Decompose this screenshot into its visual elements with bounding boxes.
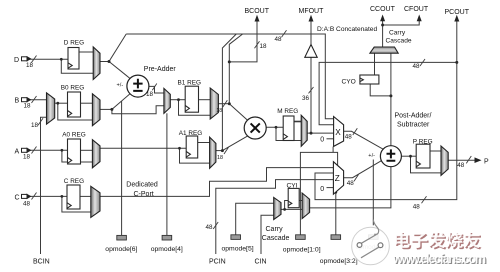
label post-adder plusminus — [368, 153, 375, 159]
bus tick Z out 48 — [354, 175, 359, 182]
svg-text:opmode[3:2]: opmode[3:2] — [320, 258, 358, 265]
label PCOUT — [445, 9, 470, 16]
svg-text:48: 48 — [23, 201, 31, 208]
label X out 48 — [345, 133, 353, 140]
register C REG — [67, 185, 80, 209]
mux D REG bypass — [93, 47, 100, 80]
arrowhead CCOUT — [380, 15, 385, 22]
svg-text:MFOUT: MFOUT — [299, 8, 325, 15]
node pre-adder mux output junction — [177, 98, 180, 101]
pre-adder circle — [127, 75, 149, 97]
bus tick concat 48 — [282, 30, 287, 37]
wire B0 REG bypass — [58, 103, 93, 120]
label A1 out 18 — [217, 155, 223, 161]
wire B1 REG out to mux — [199, 99, 211, 101]
label D REG — [64, 40, 84, 47]
svg-text:Subtracter: Subtracter — [397, 121, 430, 128]
pad opmode32 — [331, 235, 341, 240]
mux carry CYI bypass — [302, 193, 310, 219]
svg-text:48: 48 — [457, 162, 465, 169]
label BCOUT 18 — [260, 43, 268, 50]
label C REG — [64, 178, 84, 185]
svg-text:P: P — [484, 158, 489, 165]
mux X — [334, 117, 344, 147]
wire C input to C REG — [30, 195, 67, 197]
wire A1 to multiplier diagonal — [222, 136, 247, 151]
label D:A:B Concatenated — [317, 26, 377, 33]
svg-text:CYO: CYO — [342, 79, 356, 86]
bus tick BCIN 18 — [38, 118, 43, 125]
node B0 output junction — [110, 108, 113, 111]
label M REG — [277, 108, 298, 115]
register CYO — [360, 75, 379, 84]
label bus 48 top — [275, 36, 283, 43]
label A0 REG — [62, 132, 85, 139]
svg-text:48: 48 — [347, 180, 355, 187]
svg-text:18: 18 — [216, 108, 222, 114]
register A1 REG — [186, 136, 198, 158]
svg-text:48: 48 — [413, 63, 421, 70]
svg-text:BCOUT: BCOUT — [245, 8, 270, 15]
bus tick B1 18 — [223, 100, 228, 107]
mux B0 REG bypass — [92, 94, 100, 126]
bus tick BCOUT 18 — [255, 41, 260, 48]
label opmode6 — [105, 246, 137, 253]
wire P out — [448, 159, 475, 161]
arrowhead MFOUT — [309, 15, 314, 22]
bus tick A 18 — [32, 147, 37, 154]
wire P REG out to mux — [430, 150, 441, 152]
wire CYI out — [299, 200, 302, 202]
bus tick MFOUT 36 — [309, 87, 314, 93]
wire A0 REG bypass — [62, 150, 93, 162]
svg-text:P REG: P REG — [413, 138, 433, 145]
mux C REG bypass — [91, 186, 100, 217]
wire X mux select stub — [332, 147, 334, 153]
node post-adder output junction — [409, 155, 412, 158]
label P output — [484, 158, 489, 165]
label opmode10 — [283, 246, 321, 253]
label P REG — [413, 138, 433, 145]
svg-text:M REG: M REG — [277, 108, 298, 115]
label BCIN — [33, 259, 50, 266]
pad opmode7 — [369, 235, 379, 240]
label A1 REG — [179, 130, 202, 137]
wire CYO out — [370, 84, 391, 96]
pad opmode4 — [162, 235, 172, 240]
wire B input to mux — [30, 99, 47, 101]
multiplier circle — [244, 117, 266, 139]
watermark logo circle — [352, 220, 390, 265]
wire A input to A0 REG — [30, 149, 68, 151]
svg-text:Carry: Carry — [389, 30, 406, 37]
wire Z zero stub — [327, 187, 334, 189]
svg-text:D:A:B Concatenated: D:A:B Concatenated — [317, 26, 377, 33]
svg-text:18: 18 — [26, 62, 34, 69]
svg-text:CFOUT: CFOUT — [404, 6, 429, 13]
svg-text:D REG: D REG — [64, 40, 84, 47]
node PCOUT junction — [455, 61, 458, 64]
bus-width slash ticks — [32, 30, 472, 229]
register B1 REG — [185, 86, 198, 112]
label CFOUT — [404, 6, 429, 13]
mux Z — [333, 162, 343, 195]
wire D REG out to mux — [79, 51, 93, 53]
svg-text:A: A — [15, 148, 20, 155]
svg-text:opmode[4]: opmode[4] — [151, 246, 183, 253]
wire B1 REG bypass — [179, 100, 211, 116]
label opmode5 — [222, 245, 254, 252]
label Post-Adder Subtracter — [395, 112, 432, 128]
wire Z mux out to post-adder — [344, 161, 382, 178]
bus tick A1 18 — [224, 147, 229, 154]
node D input junction — [60, 58, 63, 61]
port D pad — [22, 57, 31, 61]
node carry CYI junction — [283, 208, 286, 211]
register B0 REG — [68, 92, 81, 117]
node CYO output junction — [389, 94, 392, 97]
label Z mux — [335, 174, 340, 183]
port C pad — [22, 194, 31, 198]
wire carry select mux out to post-adder — [310, 167, 391, 208]
svg-text:18: 18 — [31, 122, 39, 129]
svg-text:0: 0 — [320, 136, 324, 143]
node MFOUT tap junction — [310, 132, 313, 135]
bus tick D 18 — [32, 56, 37, 63]
svg-text:B1 REG: B1 REG — [178, 79, 201, 86]
pad opmode10 — [296, 235, 306, 240]
svg-text:48: 48 — [345, 133, 353, 140]
wire B direct to pre-adder bypass mux — [112, 106, 164, 114]
svg-text:X: X — [335, 128, 341, 137]
label port A — [15, 148, 20, 155]
wire B0 mux out — [100, 108, 112, 110]
wire opmode6 — [121, 101, 123, 235]
svg-text:Carry: Carry — [266, 226, 284, 233]
wire C REG out to mux — [80, 195, 91, 197]
bus tick P feedback top 48 — [420, 59, 425, 66]
label BCIN width 18 — [31, 122, 39, 129]
svg-text:PCIN: PCIN — [209, 259, 226, 266]
wire carry mux out — [281, 208, 302, 210]
svg-text:opmode[6]: opmode[6] — [105, 246, 137, 253]
svg-text:A1 REG: A1 REG — [179, 130, 202, 137]
wire B1 to multiplier diagonal — [229, 104, 247, 121]
label pre-adder plusminus — [117, 82, 124, 88]
wire pre-adder mux out to B1 REG — [170, 99, 185, 101]
svg-text:18: 18 — [260, 43, 268, 50]
node A1 output junction — [221, 149, 224, 152]
svg-text:C: C — [15, 194, 20, 201]
label MFOUT 36 — [302, 95, 310, 102]
wire into CYI — [285, 201, 289, 210]
svg-text:Post-Adder/: Post-Adder/ — [395, 112, 432, 119]
wire BCOUT branch — [229, 21, 257, 62]
label opmode32 — [320, 258, 358, 265]
wire C mux out to Z mux — [100, 168, 333, 197]
bus tick PCIN 48 — [213, 222, 218, 229]
bus tick P feedback bottom 48 — [422, 196, 427, 203]
label CCOUT — [370, 6, 396, 13]
wire B to pre-adder diagonal — [112, 94, 130, 110]
node Z select junction — [334, 191, 337, 194]
svg-text:18: 18 — [146, 91, 154, 98]
svg-text:48: 48 — [275, 36, 283, 43]
svg-text:D: D — [14, 57, 19, 64]
arrowhead P output — [475, 157, 482, 163]
svg-text:B: B — [15, 98, 20, 105]
svg-text:opmode[1:0]: opmode[1:0] — [283, 246, 321, 253]
svg-text:opmode[5]: opmode[5] — [222, 245, 254, 252]
svg-text:C REG: C REG — [64, 178, 84, 185]
label B1 REG — [178, 79, 201, 86]
pad opmode6 — [117, 235, 127, 240]
bus tick B 18 — [32, 96, 37, 103]
label MFOUT — [299, 8, 325, 15]
svg-text:0: 0 — [320, 186, 324, 193]
svg-text:BCIN: BCIN — [33, 259, 50, 266]
wire PCIN to Z mux — [216, 180, 334, 254]
svg-text:48: 48 — [413, 204, 421, 211]
node B1 output junction — [228, 102, 231, 105]
arrowhead CFOUT — [417, 15, 422, 22]
svg-text:48: 48 — [206, 224, 214, 231]
svg-text:PCOUT: PCOUT — [445, 9, 470, 16]
label port B — [15, 98, 20, 105]
label Carry Cascade top — [386, 30, 412, 45]
mux carry cascade top — [370, 47, 398, 53]
wire D to concat bus diagonal — [109, 34, 126, 62]
label Pre-Adder — [144, 66, 177, 73]
svg-text:C-Port: C-Port — [134, 191, 154, 198]
wire BCIN — [41, 117, 47, 254]
label pre-adder out 18 — [146, 91, 154, 98]
svg-text:18: 18 — [23, 153, 31, 160]
label X zero — [320, 136, 324, 143]
wire opmode7 — [372, 160, 374, 226]
label B1 out 18 — [216, 108, 222, 114]
port B pad — [22, 98, 31, 102]
post-adder circle — [380, 146, 401, 167]
label CIN — [255, 259, 267, 266]
node B mux output junction — [56, 102, 59, 105]
label X mux — [335, 128, 341, 137]
wire B1 mux out — [218, 103, 229, 105]
node A0 output junction — [178, 147, 181, 150]
wire C REG bypass — [62, 196, 91, 212]
wire B mux out to B0 REG — [55, 102, 68, 104]
wire M REG bypass — [276, 127, 301, 140]
label B width 18 — [24, 103, 32, 110]
wire opmode10 up to X and Z selects — [300, 152, 337, 234]
wire opmode5 to carry mux — [236, 203, 274, 235]
wire B cascade up to bus — [229, 34, 243, 104]
bus tick pre-adder 18 — [152, 84, 157, 91]
register A0 REG — [68, 139, 81, 164]
node A input junction — [61, 149, 64, 152]
wire P feedback to X mux — [319, 62, 457, 124]
svg-text:Dedicated: Dedicated — [126, 181, 158, 188]
label Dedicated C-Port — [126, 181, 158, 198]
mux A1 REG bypass — [210, 137, 216, 168]
svg-text:Cascade: Cascade — [386, 38, 412, 45]
wire A1 REG out to mux — [198, 142, 210, 144]
svg-text:CCOUT: CCOUT — [370, 6, 396, 13]
wire D input to D REG — [30, 58, 69, 60]
wire P REG bypass — [411, 156, 442, 173]
wire PCOUT vertical and P feedback down — [315, 21, 457, 200]
node CCOUT CFOUT junction — [381, 24, 384, 27]
watermark chinese text — [395, 232, 482, 250]
wire A1 mux out — [216, 150, 223, 152]
svg-text:Z: Z — [335, 174, 340, 183]
bus tick C 48 — [32, 193, 37, 200]
label Carry Cascade bottom — [262, 226, 290, 242]
label PCIN — [209, 259, 226, 266]
wire D REG bypass — [61, 59, 93, 73]
mux M REG bypass — [301, 115, 307, 146]
label C width 48 — [23, 201, 31, 208]
bus tick P out 48 — [466, 156, 471, 163]
svg-text:Cascade: Cascade — [262, 235, 290, 242]
label port D — [14, 57, 19, 64]
label Z zero — [320, 186, 324, 193]
svg-text:CYI: CYI — [287, 182, 298, 189]
wire CIN — [261, 215, 274, 254]
buffer triangle MFOUT — [305, 45, 317, 58]
svg-text:+/-: +/- — [368, 153, 375, 159]
wire A1 REG bypass — [180, 148, 210, 163]
label PCIN 48 — [206, 224, 214, 231]
wire M mux out to X mux — [307, 132, 333, 134]
mux B input select — [47, 93, 55, 124]
svg-text:B0 REG: B0 REG — [61, 84, 84, 91]
wire X zero stub — [327, 138, 334, 140]
wire carry cascade to CYO — [374, 53, 376, 75]
wire X mux out to post-adder — [344, 131, 384, 149]
svg-text:A0 REG: A0 REG — [62, 132, 85, 139]
label BCOUT — [245, 8, 270, 15]
wire D to pre-adder diagonal — [109, 62, 130, 79]
svg-text:18: 18 — [24, 103, 32, 110]
wire MFOUT up — [310, 21, 312, 134]
wire CCOUT CFOUT — [383, 20, 420, 47]
label A width 18 — [23, 153, 31, 160]
wire A0 mux out — [100, 147, 186, 149]
label opmode4 — [151, 246, 183, 253]
wire opmode32 to Z mux — [335, 192, 337, 236]
port A pad — [22, 148, 31, 152]
wire post-adder out to P REG — [401, 155, 416, 157]
node C input junction — [61, 195, 64, 198]
mux pre-adder bypass — [164, 88, 170, 113]
node D mux output junction — [108, 60, 111, 63]
wire multiplier out — [266, 126, 283, 128]
mux A0 REG bypass — [92, 140, 100, 168]
wire B0 REG out to mux — [81, 102, 93, 104]
mux P REG bypass — [441, 146, 448, 175]
svg-text:www.elecfans.com: www.elecfans.com — [392, 252, 486, 266]
wire carry cascade direct down — [390, 53, 392, 146]
label B0 REG — [61, 84, 84, 91]
bus tick X out 48 — [353, 128, 358, 135]
node BCOUT tap junction — [228, 60, 231, 63]
label opmode7 — [356, 244, 387, 251]
register M REG — [283, 116, 294, 141]
label port C — [15, 194, 20, 201]
label feedback 48 — [413, 204, 421, 211]
svg-text:18: 18 — [217, 155, 223, 161]
label D width 18 — [26, 62, 34, 69]
svg-text:CIN: CIN — [255, 259, 267, 266]
node multiplier output junction — [275, 126, 278, 129]
label CYO — [342, 79, 356, 86]
svg-text:Pre-Adder: Pre-Adder — [144, 66, 177, 73]
mux carry cascade select — [274, 197, 281, 219]
label CYI — [287, 182, 298, 189]
wire D mux out — [100, 61, 109, 63]
wire A cascade up to bus — [222, 34, 236, 151]
register CYI — [288, 188, 299, 207]
label P feedback 48 — [413, 63, 421, 70]
wire opmode4 — [166, 113, 168, 235]
wire D:A:B concatenated bus — [126, 34, 333, 119]
wire A0 REG out to mux — [81, 149, 93, 151]
arrowhead PCOUT — [454, 15, 459, 22]
svg-text:36: 36 — [302, 95, 310, 102]
pad opmode5 — [231, 235, 241, 240]
register D REG — [68, 48, 79, 70]
arrowhead BCOUT — [255, 15, 260, 22]
label Z out 48 — [347, 180, 355, 187]
mux B1 REG bypass — [210, 88, 218, 119]
wire pre-adder out — [149, 86, 164, 93]
wire M REG out to mux — [294, 121, 301, 123]
svg-text:+/-: +/- — [117, 82, 124, 88]
register P REG — [416, 144, 430, 168]
label P out 48 — [457, 162, 465, 169]
watermark url text — [392, 252, 487, 267]
